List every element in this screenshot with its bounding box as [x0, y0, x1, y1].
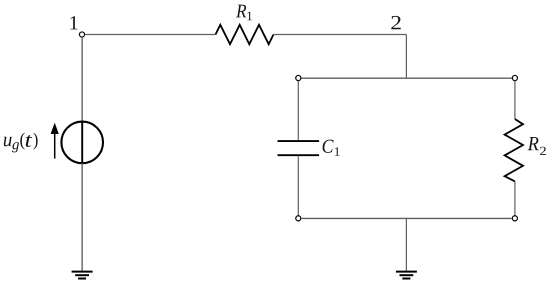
wire source to ground: [81, 163, 83, 271]
label C1: [323, 140, 340, 156]
terminal top of C1: [296, 75, 301, 80]
label ug(t): [4, 133, 38, 153]
node 2 label: [391, 16, 400, 29]
wire mid horizontal: [301, 77, 512, 79]
wire node 2 down: [405, 35, 407, 79]
ground left: [72, 272, 93, 279]
wire to middle ground: [405, 218, 407, 271]
wire bottom horizontal: [301, 217, 512, 219]
label R2: [528, 137, 546, 155]
arrow voltage direction: [51, 123, 59, 159]
capacitor C1: [278, 141, 320, 155]
voltage source ug: [61, 122, 103, 164]
terminal top of R2: [512, 75, 517, 80]
wire R1 to node 2: [274, 34, 407, 36]
wire node1 to R1: [85, 34, 216, 36]
wire node1 to source: [81, 37, 83, 121]
resistor R1: [216, 25, 274, 44]
terminal bottom of R2: [512, 216, 517, 221]
node 1 label: [70, 16, 77, 29]
wire R2 bottom: [514, 181, 516, 215]
node 1 terminal: [79, 32, 84, 37]
wire C1 top: [297, 81, 299, 141]
terminal bottom of C1: [296, 216, 301, 221]
resistor R2: [505, 119, 523, 181]
wire C1 bottom: [297, 156, 299, 215]
wire R2 top: [514, 81, 516, 119]
label R1: [236, 5, 252, 21]
ground middle: [396, 272, 417, 279]
